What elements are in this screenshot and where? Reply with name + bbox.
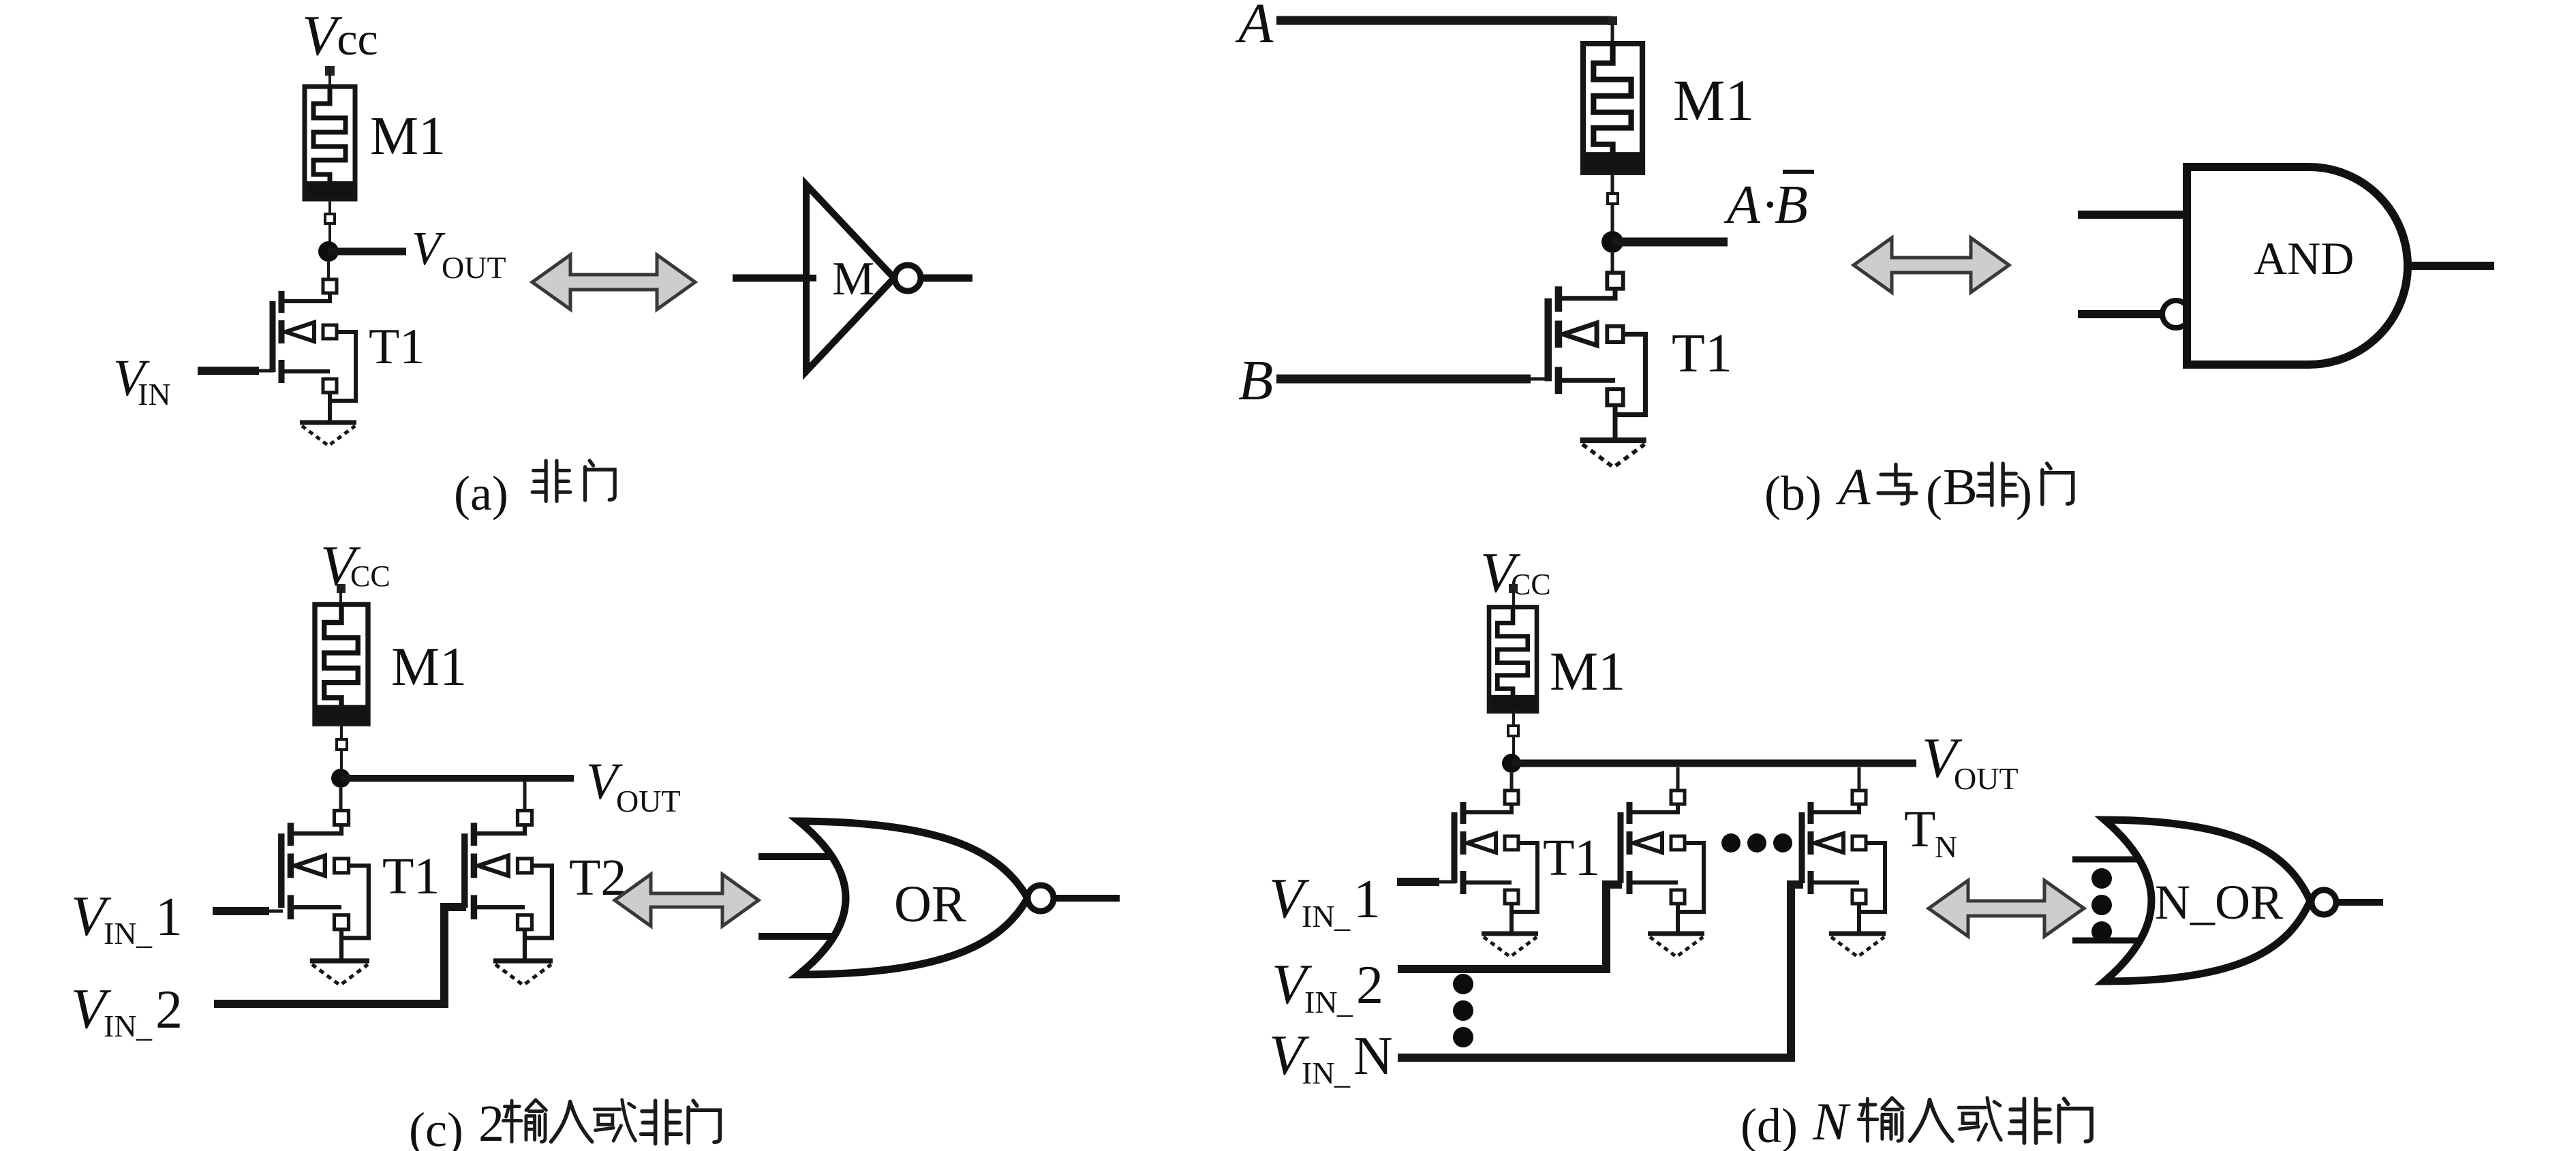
wire node to T1	[339, 788, 343, 812]
memristor M1	[305, 87, 355, 199]
ground (b)	[1580, 440, 1646, 467]
svg-text:Vcc: Vcc	[302, 4, 378, 67]
wire memristor to node	[1611, 172, 1614, 233]
pin square	[337, 739, 347, 750]
svg-text:(: (	[1926, 466, 1942, 521]
svg-text:M1: M1	[370, 106, 446, 166]
N_OR output wire	[2336, 899, 2383, 906]
wire drop to T2	[1676, 767, 1680, 792]
ground under T2 (d)	[1648, 934, 1704, 957]
pin square	[1508, 726, 1518, 736]
terminal	[337, 584, 346, 593]
Vcc terminal	[325, 66, 335, 76]
svg-text:M1: M1	[1550, 642, 1625, 702]
double arrow (d)	[1929, 880, 2084, 936]
pin square	[1608, 194, 1618, 204]
svg-text:M: M	[832, 253, 874, 305]
svg-text:(c): (c)	[409, 1103, 463, 1151]
N_OR gate dots	[2091, 868, 2112, 889]
svg-text:CC: CC	[350, 559, 390, 593]
node junction	[331, 769, 350, 788]
N_OR bubble	[2312, 890, 2336, 915]
AND output wire	[2408, 262, 2494, 270]
svg-text:T1: T1	[369, 319, 425, 375]
svg-text:A: A	[1835, 459, 1871, 516]
memristor M1	[315, 604, 368, 724]
svg-text:AND: AND	[2254, 232, 2354, 284]
wire VIN_2	[214, 907, 466, 1004]
svg-text:2: 2	[478, 1095, 504, 1151]
node junction	[1502, 754, 1521, 773]
svg-text:_: _	[1336, 985, 1353, 1019]
inverter bubble	[895, 265, 921, 291]
svg-text:IN: IN	[138, 377, 171, 412]
wire to memristor	[339, 589, 342, 607]
svg-text:_: _	[136, 916, 153, 951]
svg-text:N_OR: N_OR	[2155, 875, 2283, 930]
svg-text:(b): (b)	[1764, 466, 1822, 521]
wire to memristor	[1512, 589, 1515, 609]
wire node to T1	[1510, 773, 1514, 792]
wire drop to TN	[1858, 767, 1861, 792]
svg-text:1: 1	[155, 887, 183, 947]
wire VIN	[198, 367, 259, 375]
svg-text:T: T	[1904, 801, 1935, 858]
double arrow (a)	[532, 255, 695, 309]
svg-text:B: B	[1943, 459, 1978, 516]
wire node to T1	[1611, 253, 1614, 274]
wire memristor to node	[328, 199, 331, 243]
svg-text:N: N	[1353, 1026, 1393, 1086]
svg-text:T1: T1	[1672, 324, 1732, 384]
svg-text:2: 2	[155, 980, 183, 1040]
wire VIN_1	[213, 907, 269, 915]
svg-text:N: N	[1812, 1092, 1851, 1151]
N_OR gate inputs	[2072, 857, 2147, 863]
memristor M1	[1583, 44, 1642, 172]
ground (a)	[300, 423, 356, 446]
inverter triangle M	[806, 185, 894, 371]
transistor T2	[1621, 791, 1704, 934]
transistor T1	[1548, 273, 1646, 440]
OR output wire	[1054, 895, 1120, 902]
ground under T2 (c)	[493, 961, 553, 985]
wire memristor to node	[1512, 711, 1515, 756]
N_OR gate body	[2104, 820, 2310, 981]
OR gate inputs	[758, 853, 842, 860]
svg-text:M1: M1	[391, 637, 467, 697]
transistor TN	[1802, 791, 1885, 934]
wire VIN_N	[1398, 885, 1803, 1058]
svg-text:): )	[2016, 466, 2032, 521]
memristor M1	[1489, 607, 1537, 711]
svg-text:OR: OR	[894, 876, 966, 933]
ground under T1 (c)	[310, 961, 369, 985]
AND gate input 2 with bubble	[2078, 310, 2161, 318]
svg-text:N: N	[1935, 829, 1957, 864]
OR gate body	[799, 821, 1028, 974]
node junction	[1601, 231, 1623, 253]
svg-text:IN: IN	[104, 1009, 137, 1043]
output wire A.B	[1612, 238, 1728, 247]
terminal	[1509, 584, 1518, 593]
wire B	[1276, 375, 1531, 384]
wire A	[1276, 16, 1612, 25]
pin square	[325, 214, 335, 224]
wire VOUT	[341, 775, 574, 782]
vertical dots	[1453, 974, 1473, 994]
AND gate body	[2187, 167, 2408, 365]
svg-text:_: _	[1334, 899, 1351, 934]
svg-text:OUT: OUT	[1954, 761, 2019, 796]
ground under TN (d)	[1829, 934, 1886, 957]
wire VOUT	[1512, 760, 1916, 767]
svg-text:IN: IN	[104, 916, 137, 951]
wire VOUT	[328, 248, 406, 256]
svg-text:A: A	[1235, 0, 1274, 55]
inverter input wire	[733, 275, 806, 282]
wire memristor to node	[340, 724, 343, 770]
svg-text:A: A	[1723, 175, 1761, 235]
transistor T1	[273, 279, 356, 423]
wire Vcc to memristor	[328, 71, 331, 87]
ground under T1 (d)	[1482, 934, 1538, 957]
transistor T1	[281, 811, 369, 962]
svg-text:IN: IN	[1304, 985, 1338, 1019]
wire node to T1	[327, 262, 330, 279]
svg-text:M1: M1	[1673, 67, 1754, 133]
dots between transistors	[1721, 833, 1741, 853]
terminal	[1608, 16, 1617, 25]
transistor T2	[465, 811, 552, 962]
svg-text:IN: IN	[1302, 899, 1335, 934]
svg-text:_: _	[1334, 1056, 1351, 1090]
svg-text:(d): (d)	[1741, 1099, 1798, 1151]
svg-text:T1: T1	[1543, 829, 1600, 887]
wire VIN_2	[1398, 885, 1622, 969]
svg-text:B: B	[1775, 175, 1808, 235]
node VOUT junction	[318, 241, 339, 262]
svg-text:_: _	[136, 1009, 153, 1043]
AND gate input 1	[2078, 211, 2187, 219]
double arrow (c)	[615, 874, 758, 926]
svg-text:1: 1	[1353, 870, 1381, 930]
wire drop to T2	[523, 782, 527, 812]
inverter output wire	[921, 275, 972, 282]
svg-text:2: 2	[1356, 955, 1383, 1015]
svg-text:OUT: OUT	[616, 784, 681, 818]
wire VIN_1	[1397, 878, 1439, 886]
svg-text:OUT: OUT	[442, 250, 506, 285]
transistor T1	[1454, 791, 1537, 934]
svg-text:(a): (a)	[454, 466, 508, 521]
OR bubble	[1028, 885, 1054, 911]
svg-text:B: B	[1238, 349, 1273, 412]
svg-text:T1: T1	[382, 848, 440, 905]
svg-text:IN: IN	[1302, 1056, 1335, 1090]
svg-text:V: V	[412, 223, 446, 275]
wire down to memristor	[1611, 25, 1614, 45]
double arrow (b)	[1854, 238, 2009, 292]
